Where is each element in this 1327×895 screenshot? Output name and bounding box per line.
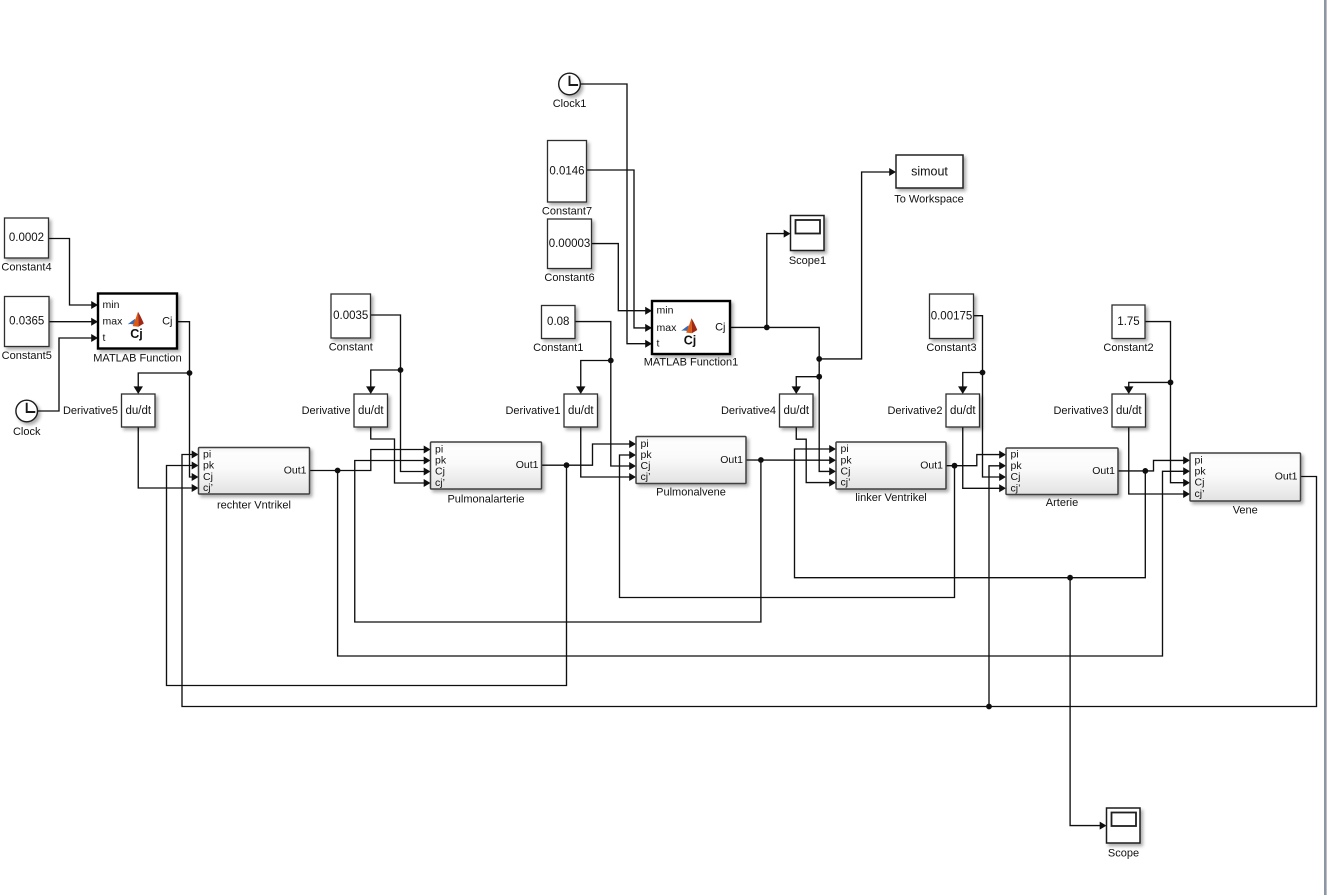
svg-text:Cj: Cj [130,327,143,341]
derivative block Derivative3 [1053,394,1145,427]
wire Constant2 to Vene Cj [1145,322,1184,483]
wire MATLAB Function1 Cj to linker Ventrikel Cj [730,327,830,471]
svg-text:Scope: Scope [1108,848,1139,860]
svg-text:du/dt: du/dt [1116,405,1142,417]
svg-text:Cj: Cj [1195,477,1205,489]
wire branch to Derivative1 [581,361,611,388]
subsystem block Pulmonalarterie [431,442,542,506]
svg-text:cj’: cj’ [1011,482,1021,494]
svg-text:Constant4: Constant4 [1,262,51,274]
svg-text:Cj: Cj [162,316,172,328]
svg-text:du/dt: du/dt [783,405,809,417]
svg-text:cj’: cj’ [203,482,213,494]
node junction Pulmonalvene Out1 [758,457,764,463]
svg-text:Constant6: Constant6 [544,272,594,284]
constant block Constant [329,294,373,354]
svg-text:Derivative4: Derivative4 [721,405,776,417]
derivative block Derivative1 [505,394,597,427]
svg-text:simout: simout [911,165,948,179]
wire branch to Derivative2 [963,373,983,388]
MATLAB Function block MATLAB Function1 [644,301,739,369]
node junction Derivative branch [398,367,404,373]
svg-text:max: max [657,322,678,334]
svg-text:Arterie: Arterie [1046,497,1078,509]
subsystem block rechter Vntrikel [199,448,310,512]
svg-text:Constant7: Constant7 [542,206,592,218]
derivative block Derivative4 [721,394,813,427]
constant block Constant7 [542,141,592,218]
svg-text:Derivative3: Derivative3 [1053,405,1108,417]
svg-text:0.0146: 0.0146 [549,165,584,177]
wire branch to Scope1 [767,234,785,328]
svg-text:0.0365: 0.0365 [9,316,44,328]
subsystem block Arterie [1006,448,1118,509]
wire Clock1 to MATLAB Function1 t [580,84,646,344]
wire branch to Derivative4 [796,377,819,388]
svg-text:0.00003: 0.00003 [549,238,591,250]
clock block Clock1 [553,73,587,110]
wire Pulmonalvene Out1 to linker Ventrikel pk [746,459,830,461]
svg-text:Clock: Clock [13,426,41,438]
subsystem block Pulmonalvene [636,437,746,499]
subsystem block Vene [1190,453,1301,516]
svg-text:Constant1: Constant1 [533,342,583,354]
svg-text:min: min [657,305,674,317]
svg-text:Constant: Constant [329,342,373,354]
svg-text:0.0035: 0.0035 [333,310,368,322]
wire linker Out1 feedback to Pulmonalvene pk [620,455,955,598]
constant block Constant3 [926,294,976,354]
constant block Constant1 [533,306,583,355]
wire Derivative5 to rechter Vntrikel cjp [138,427,192,488]
wire Clock to MATLAB Function t [38,338,92,411]
svg-text:Out1: Out1 [516,459,539,471]
node junction Scope1 branch [764,325,770,331]
wire Pulmonalvene Out1 feedback to Pulmonalarterie pk [355,460,761,622]
wire Derivative3 to Vene cjp [1129,427,1184,494]
svg-text:Cj: Cj [435,466,445,478]
constant block Constant2 [1103,305,1153,354]
scope block Scope [1107,808,1141,860]
node junction Scope branch [1067,575,1073,581]
svg-text:t: t [103,332,106,344]
svg-text:Out1: Out1 [1275,471,1298,483]
wire branch to Derivative5 [138,373,189,388]
wire rechter Vntrikel Out1 to Pulmonalarterie pi [310,450,425,471]
svg-text:Derivative2: Derivative2 [887,405,942,417]
constant block Constant4 [1,218,51,274]
svg-text:cj’: cj’ [841,477,851,489]
svg-text:Constant3: Constant3 [926,342,976,354]
svg-text:t: t [657,338,660,350]
svg-text:0.08: 0.08 [547,316,569,328]
svg-text:Vene: Vene [1233,504,1258,516]
derivative block Derivative5 [63,394,155,427]
svg-text:MATLAB Function: MATLAB Function [93,352,181,364]
wire rechter Out1 feedback to Vene pk [338,471,1184,657]
svg-text:Out1: Out1 [920,460,943,472]
svg-text:du/dt: du/dt [950,405,976,417]
svg-text:MATLAB Function1: MATLAB Function1 [644,357,739,369]
wire Constant5 to MATLAB Function max [49,321,92,323]
svg-text:Pulmonalvene: Pulmonalvene [656,487,726,499]
svg-text:Cj: Cj [1011,471,1021,483]
wire Pulmonalarterie Out1 feedback to rechter pk [167,465,567,685]
svg-text:1.75: 1.75 [1117,316,1139,328]
svg-text:Out1: Out1 [720,454,743,466]
wire branch to Derivative3 [1129,382,1171,387]
svg-text:cj’: cj’ [1195,488,1205,500]
derivative block Derivative2 [887,394,979,427]
svg-text:du/dt: du/dt [358,405,384,417]
node junction Derivative3 branch [1168,380,1174,386]
svg-text:du/dt: du/dt [568,405,594,417]
wire Constant7 to MATLAB Function1 max [587,170,647,328]
svg-text:Out1: Out1 [1092,465,1115,477]
svg-text:cj’: cj’ [641,471,651,483]
svg-text:rechter Vntrikel: rechter Vntrikel [217,500,291,512]
svg-text:du/dt: du/dt [125,405,151,417]
wire Derivative1 to Pulmonalvene cjp [581,427,630,477]
svg-text:cj’: cj’ [435,477,445,489]
svg-text:min: min [103,299,120,311]
MATLAB Function block MATLAB Function [93,294,181,365]
svg-text:0.0002: 0.0002 [9,232,44,244]
node junction Derivative5 branch [187,370,193,376]
svg-text:pk: pk [1011,460,1023,472]
wire Vene Out1 feedback to rechter pi [182,455,1317,707]
wire Arterie Out1 feedback to linker pi [795,449,1146,578]
node junction Vene Out1 feedback [986,704,992,710]
window border right edge [1324,0,1327,895]
svg-text:Pulmonalarterie: Pulmonalarterie [447,494,524,506]
node junction Arterie Out1 [1142,468,1148,474]
svg-text:Constant2: Constant2 [1103,342,1153,354]
svg-text:max: max [103,316,124,328]
scope block Scope1 [789,216,826,268]
wire branch to simout [819,172,890,359]
svg-text:pi: pi [1011,449,1019,461]
svg-text:Cj: Cj [841,465,851,477]
wire Derivative2 to Arterie cjp [963,427,1000,488]
svg-text:pi: pi [841,443,849,455]
svg-text:To Workspace: To Workspace [894,194,964,206]
svg-text:linker Ventrikel: linker Ventrikel [855,492,927,504]
svg-text:Derivative5: Derivative5 [63,405,118,417]
node junction Derivative4 branch [816,374,822,380]
wire Pulmonalarterie Out1 to Pulmonalvene pi [542,444,631,465]
constant block Constant5 [2,297,52,363]
svg-text:Derivative: Derivative [302,405,351,417]
node junction Pulmonalarterie Out1 [564,462,570,468]
wire MATLAB Function Cj to rechter Vntrikel Cj [177,322,193,477]
svg-text:0.00175: 0.00175 [931,310,973,322]
node junction Derivative2 branch [980,370,986,376]
svg-text:Scope1: Scope1 [789,255,826,267]
wire Derivative4 to linker Ventrikel cjp [796,427,830,483]
svg-text:pk: pk [203,460,215,472]
svg-text:pk: pk [1195,465,1207,477]
derivative block Derivative [302,394,388,427]
wire Constant3 to Arterie Cj [974,316,1001,477]
subsystem block linker Ventrikel [836,442,946,504]
svg-text:Cj: Cj [715,321,725,333]
wire Constant6 to MATLAB Function1 min [592,244,647,311]
node junction simout branch [816,356,822,362]
wire Arterie Out1 to Vene pi [1118,460,1184,471]
wire Constant4 to MATLAB Function min [49,239,92,306]
svg-text:Out1: Out1 [284,465,307,477]
wire Constant1 to Pulmonalvene Cj [575,322,630,466]
wire branch to Scope [1070,578,1100,826]
clock block Clock [13,400,41,438]
node junction rechter Out1 [335,468,341,474]
node junction linker Out1 [952,463,958,469]
to-workspace block simout [894,155,964,206]
constant block Constant6 [544,219,594,284]
wire Derivative to Pulmonalarterie cjp [371,427,425,483]
wire branch to Arterie pk [989,466,1000,707]
svg-text:Cj: Cj [684,333,697,347]
svg-text:Clock1: Clock1 [553,98,587,110]
node junction Derivative1 branch [608,358,614,364]
wire branch to Derivative [371,370,401,388]
wire linker Ventrikel Out1 to Arterie pi [946,455,1000,466]
svg-text:Constant5: Constant5 [2,350,52,362]
wire Constant to Pulmonalarterie Cj [371,315,425,472]
svg-text:Derivative1: Derivative1 [505,405,560,417]
